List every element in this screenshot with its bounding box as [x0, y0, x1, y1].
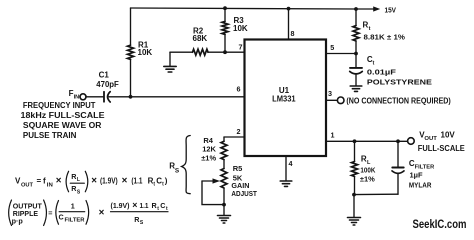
svg-text:(NO CONNECTION REQUIRED): (NO CONNECTION REQUIRED): [346, 96, 451, 105]
svg-text:±1%: ±1%: [360, 175, 375, 184]
svg-text:100K: 100K: [360, 165, 375, 174]
op-amp U1 LM331: [245, 40, 327, 157]
resistor R4: [221, 137, 227, 169]
wire top supply rail: [131, 8, 357, 9]
junction rail/R3: [223, 6, 227, 10]
svg-text:×: ×: [132, 200, 137, 210]
junction R2/R3/pin7: [223, 50, 227, 54]
svg-text:LM331: LM331: [272, 95, 296, 104]
wire pin 2: [224, 136, 245, 138]
junction rail/Rt: [354, 7, 358, 11]
svg-text:L: L: [77, 177, 80, 183]
capacitor Ct: [350, 54, 363, 86]
ground (Ct): [350, 86, 362, 91]
svg-text:OUT: OUT: [424, 136, 437, 142]
formula Vout fraction bar and parens: [66, 171, 88, 192]
wire R2 to ground: [169, 52, 171, 66]
input terminal FIN: [80, 94, 86, 100]
formula Vout: [15, 172, 168, 196]
svg-text:=: =: [37, 177, 42, 186]
svg-text:R5: R5: [233, 164, 243, 173]
svg-text:C1: C1: [99, 70, 110, 79]
svg-text:R: R: [361, 154, 367, 163]
capacitor Cfilter: [392, 141, 404, 194]
svg-text:8.81K ± 1%: 8.81K ± 1%: [364, 32, 406, 41]
svg-text:10V: 10V: [441, 131, 456, 140]
wire pin 1: [326, 140, 408, 142]
capacitor C1: [86, 92, 130, 102]
resistor Rt: [353, 9, 359, 54]
wire pin 8: [288, 9, 290, 40]
label R2 68K: [193, 26, 208, 43]
junction rail/pin8: [287, 7, 291, 11]
svg-text:(1.9V): (1.9V): [111, 201, 131, 210]
svg-text:t: t: [373, 60, 375, 66]
label VOUT 10V FULL-SCALE: [418, 131, 466, 153]
svg-text:10K: 10K: [233, 24, 248, 33]
svg-text:p·p: p·p: [12, 216, 24, 225]
svg-text:POLYSTYRENE: POLYSTYRENE: [367, 77, 432, 86]
ground (pin 4): [280, 181, 292, 186]
svg-text:4: 4: [289, 159, 293, 168]
svg-text:12K: 12K: [202, 145, 216, 154]
svg-text:FREQUENCY INPUT: FREQUENCY INPUT: [23, 101, 96, 110]
wire pin 5: [326, 53, 356, 55]
svg-text:S: S: [175, 168, 180, 175]
label C1 470pF: [96, 70, 119, 89]
resistor R3: [222, 8, 228, 52]
svg-text:R: R: [363, 20, 369, 29]
output terminal VOUT: [408, 138, 415, 145]
label FIN: [69, 89, 80, 100]
junction R1/input wire: [129, 95, 133, 99]
svg-text:7: 7: [239, 43, 243, 52]
resistor R2: [170, 49, 225, 55]
svg-text:ADJUST: ADJUST: [231, 189, 257, 198]
svg-text:2: 2: [237, 127, 241, 136]
svg-text:=: =: [48, 208, 52, 217]
svg-text:0.01µF: 0.01µF: [367, 67, 397, 76]
svg-text:1: 1: [71, 202, 75, 211]
wire pin 6: [131, 96, 245, 98]
svg-text:FILTER: FILTER: [65, 218, 85, 224]
svg-text:IN: IN: [47, 182, 53, 188]
svg-text:t: t: [369, 26, 371, 32]
svg-text:C: C: [59, 212, 64, 221]
label R3 10K: [233, 16, 248, 33]
resistor RL: [352, 141, 358, 194]
svg-text:±1%: ±1%: [201, 154, 216, 163]
label RL 100K ±1%: [360, 154, 376, 183]
label R5 5K GAIN ADJUST: [231, 164, 257, 198]
svg-text:10K: 10K: [138, 48, 153, 57]
wire pin 7: [225, 51, 245, 53]
svg-text:68K: 68K: [193, 34, 208, 43]
label U1 LM331: [272, 86, 296, 104]
label RS: [169, 162, 180, 175]
svg-text:×: ×: [122, 176, 128, 187]
svg-text:18kHz FULL-SCALE: 18kHz FULL-SCALE: [21, 111, 106, 120]
label Rt 8.81K: [363, 20, 406, 41]
ground (RL): [348, 218, 361, 226]
wire pin 4: [285, 156, 287, 181]
svg-text:S: S: [77, 190, 81, 196]
svg-text:IN: IN: [74, 95, 80, 101]
junction RL bottom: [352, 193, 356, 197]
svg-text:×: ×: [56, 176, 62, 187]
svg-text:SeekIC.com: SeekIC.com: [413, 219, 467, 231]
junction pin1/RL: [353, 139, 357, 143]
svg-text:t: t: [153, 182, 155, 188]
wire pin 3: [326, 99, 337, 101]
ground (R5): [218, 216, 231, 224]
wire RL to Cfilter bottom: [354, 193, 398, 195]
potentiometer R5: [202, 169, 227, 189]
svg-text:FULL-SCALE: FULL-SCALE: [418, 144, 466, 153]
svg-text:C: C: [160, 201, 165, 210]
svg-text:3: 3: [328, 89, 332, 98]
svg-text:(1.9V): (1.9V): [100, 177, 118, 186]
terminal pin 3 NC: [337, 97, 344, 104]
svg-text:8: 8: [291, 29, 295, 38]
svg-text:1µF: 1µF: [410, 170, 423, 179]
svg-text:OUT: OUT: [21, 182, 34, 188]
label Cfilter 1uF MYLAR: [409, 159, 434, 189]
junction pin1/Cfilter: [396, 139, 400, 143]
svg-text:×: ×: [99, 208, 105, 219]
svg-text:15V: 15V: [385, 6, 397, 15]
svg-text:MYLAR: MYLAR: [409, 180, 432, 189]
label R1 10K: [138, 40, 153, 57]
wire wiper loop: [202, 181, 224, 205]
junction pin5/Rt/Ct: [354, 52, 358, 56]
svg-text:5: 5: [330, 43, 334, 52]
svg-text:PULSE TRAIN: PULSE TRAIN: [23, 131, 77, 140]
label R4 12K ±1%: [201, 136, 216, 163]
ground (R2): [164, 66, 176, 72]
svg-text:(1.1: (1.1: [131, 177, 142, 186]
label Ct 0.01uF POLYSTYRENE: [367, 55, 432, 86]
wire R5 to ground: [223, 188, 225, 215]
input description text: [21, 101, 106, 140]
svg-text:S: S: [140, 220, 144, 226]
svg-text:×: ×: [91, 176, 97, 187]
svg-text:1: 1: [331, 130, 335, 139]
junction wiper/R5 bottom: [222, 203, 226, 207]
formula ripple bars and parens: [9, 200, 168, 226]
resistor R1: [128, 8, 134, 97]
svg-text:1.1: 1.1: [140, 201, 149, 210]
power +15V arrow: [356, 6, 380, 11]
svg-text:f: f: [43, 177, 46, 186]
wire RL ground stub: [353, 195, 355, 218]
svg-text:): ): [165, 177, 168, 186]
brace RS group: [182, 136, 191, 194]
svg-text:6: 6: [237, 85, 241, 94]
svg-text:SQUARE WAVE OR: SQUARE WAVE OR: [23, 121, 102, 130]
svg-text:470pF: 470pF: [96, 80, 119, 89]
formula output ripple: [12, 200, 168, 226]
